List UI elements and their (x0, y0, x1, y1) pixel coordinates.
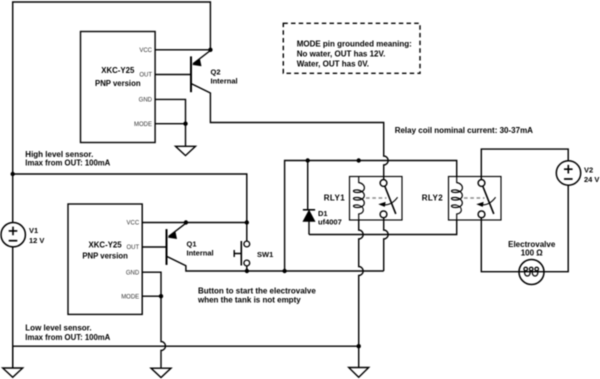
wire RLY1 coil bottom to ground (hops over two wires) (359, 220, 364, 368)
wire U2 OUT to Q1 base (142, 246, 166, 248)
svg-text:RLY2: RLY2 (422, 194, 444, 203)
sensor U1 XKC-Y25 box (81, 32, 156, 143)
sensor U2 XKC-Y25 box (68, 204, 142, 314)
note text MODE pin meaning (297, 39, 412, 68)
svg-text:V1: V1 (29, 226, 38, 235)
label XKC-Y25 PNP version (U2) (82, 240, 128, 260)
svg-text:PNP version: PNP version (95, 79, 141, 88)
wire U1 OUT to Q2 base (155, 74, 191, 76)
svg-text:12 V: 12 V (29, 236, 44, 245)
wire V2- down to electrovalve (544, 185, 568, 272)
node U1 VCC / Q2 emitter junction (208, 48, 212, 52)
electrovalve lamp (519, 260, 544, 285)
svg-text:Relay coil nominal current: 30: Relay coil nominal current: 30-37mA (395, 126, 533, 135)
svg-text:Imax from OUT: 100mA: Imax from OUT: 100mA (25, 158, 110, 167)
node D1 cathode junction (306, 158, 310, 162)
svg-text:uf4007: uf4007 (318, 217, 342, 226)
wire U2 GND jog down (142, 272, 161, 296)
node bottom rail end junction (357, 344, 361, 348)
svg-text:Water, OUT has 0V.: Water, OUT has 0V. (297, 59, 369, 68)
wire D1 anode to RLY2 coil (309, 220, 457, 235)
node left rail feed junction (11, 172, 15, 176)
wire left rail V1- down to bottom rail (12, 247, 14, 368)
ground (left rail) (3, 346, 23, 377)
wire RLY1 switch bottom to return (hop over D1 wire) (384, 218, 389, 272)
svg-text:PNP version: PNP version (82, 251, 128, 260)
label Electrovalve value (508, 240, 556, 257)
svg-text:OUT: OUT (127, 245, 140, 251)
svg-text:V2: V2 (584, 165, 593, 174)
label XKC-Y25 PNP version (U1) (95, 66, 141, 88)
voltage source V2 (556, 161, 580, 185)
svg-text:100 Ω: 100 Ω (521, 248, 544, 257)
svg-text:GND: GND (139, 98, 153, 104)
ground (U2 MODE/GND) (151, 368, 171, 377)
wire Q1 collector run to relay return (186, 265, 384, 271)
label Q1 Internal (187, 239, 214, 257)
label D1 uf4007 (318, 209, 342, 226)
wire RLY2 switch bottom to electrovalve (481, 218, 519, 272)
svg-text:No water, OUT has 12V.: No water, OUT has 12V. (297, 49, 386, 58)
svg-text:Button to start the electroval: Button to start the electrovalve (198, 286, 316, 295)
node U2 MODE junction (159, 294, 163, 298)
svg-text:XKC-Y25: XKC-Y25 (101, 66, 135, 75)
node U2 VCC / Q1 emitter junction (184, 220, 188, 224)
wire high side feed V1+ rail to U2 VCC (y=174) (13, 174, 247, 223)
svg-text:RLY1: RLY1 (324, 193, 346, 202)
svg-text:OUT: OUT (139, 73, 152, 79)
wire U1 GND jog down (155, 99, 185, 123)
svg-text:MODE: MODE (121, 294, 139, 300)
node U2 VCC / SW1 column junction (245, 220, 249, 224)
svg-text:Q2: Q2 (211, 68, 221, 77)
wire RLY2 switch top to V2+ (481, 149, 568, 180)
svg-text:MODE: MODE (134, 122, 152, 128)
transistor Q2 PNP (191, 51, 210, 94)
node U1 MODE junction (183, 122, 187, 126)
node riser junction (282, 269, 286, 273)
relay RLY2 (449, 177, 502, 221)
svg-text:SW1: SW1 (257, 250, 273, 259)
svg-text:XKC-Y25: XKC-Y25 (89, 240, 123, 249)
note box dashed (283, 23, 420, 73)
svg-text:GND: GND (126, 270, 140, 276)
wire Q2 collector run to RLY1 switch (hop over relay supply) (210, 93, 388, 180)
wire U2 VCC run to SW1 top column (142, 222, 247, 224)
label V2 value (584, 165, 599, 184)
svg-text:when the tank is not empty: when the tank is not empty (197, 295, 301, 304)
transistor Q1 PNP (167, 223, 186, 266)
label V1 value (29, 226, 44, 245)
pushbutton SW1 (234, 223, 250, 272)
wire top rail V1+ to Q2 emitter (13, 2, 211, 223)
svg-text:VCC: VCC (127, 221, 140, 227)
annotation low level sensor (25, 323, 110, 342)
wire U2 MODE + down to ground with hop over bottom rail (142, 296, 165, 368)
node SW1 bottom junction (245, 269, 249, 273)
svg-text:Internal: Internal (211, 77, 238, 86)
ground (U1 MODE/GND) (176, 146, 196, 155)
wire U1 MODE to ground (155, 124, 185, 147)
annotation button purpose (197, 286, 316, 304)
svg-text:MODE pin grounded meaning:: MODE pin grounded meaning: (297, 39, 412, 48)
diode D1 uf4007 (303, 161, 315, 235)
wire riser to relay supply rail (285, 161, 457, 272)
svg-text:Imax from OUT: 100mA: Imax from OUT: 100mA (25, 333, 110, 342)
svg-text:Internal: Internal (187, 248, 214, 257)
svg-text:Low level sensor.: Low level sensor. (25, 323, 91, 332)
node RLY1 coil top junction (357, 158, 361, 162)
wire U1 VCC to junction (155, 49, 210, 51)
svg-text:24 V: 24 V (584, 175, 599, 184)
label Q2 Internal (211, 68, 238, 86)
annotation high level sensor (25, 150, 110, 167)
svg-text:VCC: VCC (139, 48, 152, 54)
svg-text:Q1: Q1 (187, 239, 197, 248)
ground (relay rail) (349, 368, 369, 378)
wire bottom rail (13, 345, 359, 347)
relay RLY1 (350, 177, 403, 221)
voltage source V1 (1, 223, 25, 247)
